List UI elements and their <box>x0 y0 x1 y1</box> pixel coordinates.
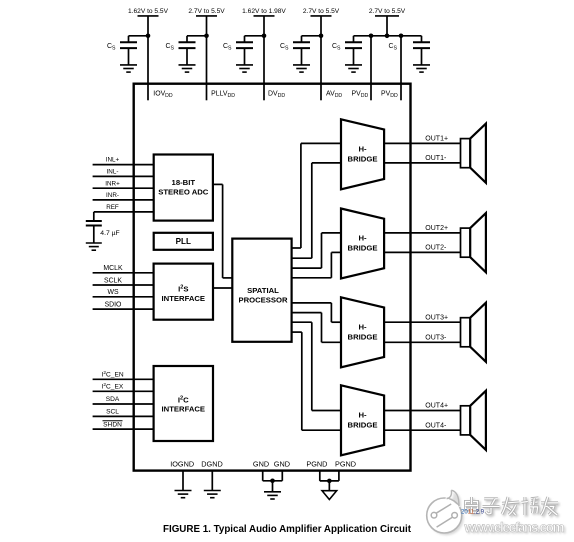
svg-text:PLL: PLL <box>176 237 191 246</box>
svg-text:MCLK: MCLK <box>103 265 123 272</box>
svg-text:INL+: INL+ <box>106 157 120 164</box>
svg-text:INR-: INR- <box>106 192 119 199</box>
svg-text:GND: GND <box>274 460 290 469</box>
svg-text:INL-: INL- <box>107 169 119 176</box>
svg-text:OUT1+: OUT1+ <box>425 136 448 143</box>
svg-text:GND: GND <box>253 460 269 469</box>
svg-text:2.7V to 5.5V: 2.7V to 5.5V <box>303 8 340 15</box>
svg-text:SCLK: SCLK <box>104 277 122 284</box>
svg-text:1.62V to 1.98V: 1.62V to 1.98V <box>242 8 286 15</box>
svg-text:18-BIT: 18-BIT <box>172 178 196 187</box>
svg-text:OUT3+: OUT3+ <box>425 314 448 321</box>
svg-text:2011.2.9: 2011.2.9 <box>461 510 485 516</box>
svg-text:H-: H- <box>358 145 367 154</box>
svg-text:STEREO ADC: STEREO ADC <box>158 187 209 196</box>
svg-text:OUT4+: OUT4+ <box>425 403 448 410</box>
svg-text:SDIO: SDIO <box>105 302 122 309</box>
svg-text:OUT1-: OUT1- <box>425 155 447 162</box>
svg-text:I2S: I2S <box>178 284 188 293</box>
svg-text:SDA: SDA <box>106 396 120 403</box>
svg-text:I2C: I2C <box>178 395 189 404</box>
svg-text:PGND: PGND <box>335 460 356 469</box>
svg-text:SCL: SCL <box>106 409 119 416</box>
svg-text:REF: REF <box>106 204 119 211</box>
svg-text:H-: H- <box>358 323 367 332</box>
svg-text:2.7V to 5.5V: 2.7V to 5.5V <box>369 8 406 15</box>
svg-text:INR+: INR+ <box>105 180 120 187</box>
svg-text:H-: H- <box>358 411 367 420</box>
svg-text:SPATIAL: SPATIAL <box>247 286 279 295</box>
svg-text:OUT2+: OUT2+ <box>425 225 448 232</box>
svg-text:OUT3-: OUT3- <box>425 335 447 342</box>
svg-text:DGND: DGND <box>201 460 223 469</box>
svg-text:www.elecfans.com: www.elecfans.com <box>464 520 565 535</box>
svg-text:2.7V to 5.5V: 2.7V to 5.5V <box>188 8 225 15</box>
svg-text:WS: WS <box>107 289 119 296</box>
svg-text:FIGURE 1. Typical Audio Amplif: FIGURE 1. Typical Audio Amplifier Applic… <box>163 524 412 535</box>
svg-text:BRIDGE: BRIDGE <box>348 244 378 253</box>
svg-text:PGND: PGND <box>306 460 327 469</box>
svg-text:H-: H- <box>358 234 367 243</box>
svg-text:1.62V to 5.5V: 1.62V to 5.5V <box>128 8 169 15</box>
svg-text:INTERFACE: INTERFACE <box>162 405 206 414</box>
svg-text:IOGND: IOGND <box>170 460 194 469</box>
svg-text:OUT4-: OUT4- <box>425 422 447 429</box>
svg-text:INTERFACE: INTERFACE <box>162 294 206 303</box>
svg-text:BRIDGE: BRIDGE <box>348 332 378 341</box>
svg-text:BRIDGE: BRIDGE <box>348 420 378 429</box>
svg-text:OUT2-: OUT2- <box>425 245 447 252</box>
svg-text:4.7 µF: 4.7 µF <box>100 230 119 237</box>
svg-text:BRIDGE: BRIDGE <box>348 154 378 163</box>
svg-text:PROCESSOR: PROCESSOR <box>238 296 288 305</box>
svg-text:SHDN: SHDN <box>103 422 122 429</box>
